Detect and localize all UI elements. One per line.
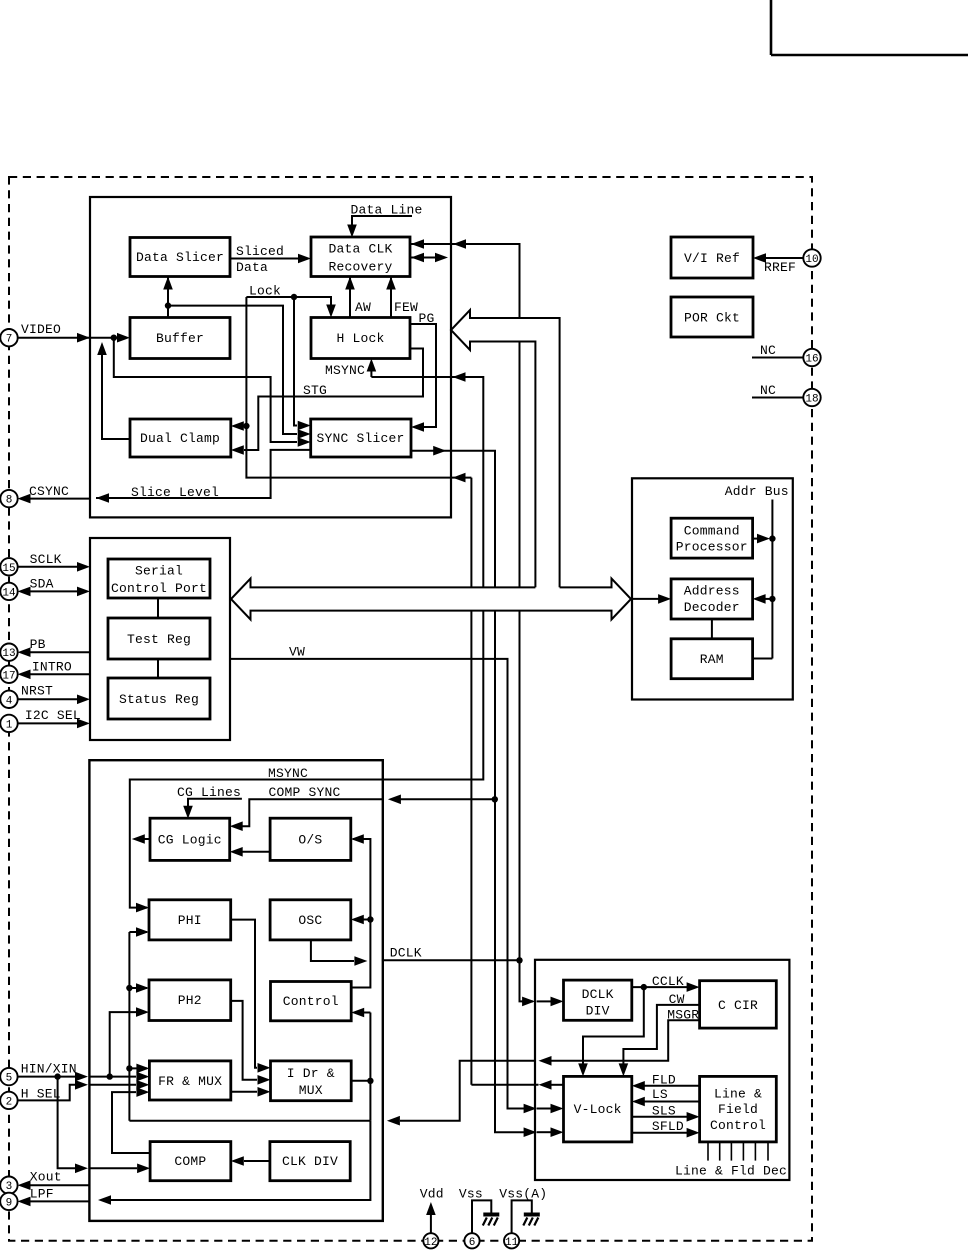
wire H SEL	[18, 1080, 150, 1100]
svg-text:SDA: SDA	[30, 577, 54, 592]
wire CW to V-Lock	[619, 1005, 700, 1077]
label CG Lines	[177, 785, 241, 800]
block I Dr & MUX	[271, 1061, 352, 1101]
block V/I Ref	[671, 237, 753, 278]
serial control group box	[90, 538, 230, 740]
pin 6 Vss	[459, 1187, 483, 1249]
label SLS	[652, 1104, 676, 1119]
svg-text:Sliced: Sliced	[236, 244, 284, 259]
pin 10 RREF	[764, 249, 821, 275]
svg-text:NRST: NRST	[21, 684, 53, 699]
svg-text:6: 6	[469, 1237, 476, 1249]
wire DCLK into Data CLK Recovery	[411, 239, 466, 249]
wire LS	[632, 1097, 700, 1107]
wire VW into V-Lock	[524, 1104, 564, 1114]
wire FEW	[386, 277, 418, 318]
svg-text:15: 15	[2, 563, 15, 575]
block OSC	[270, 900, 351, 940]
svg-text:LS: LS	[652, 1087, 668, 1102]
wire RREF	[753, 253, 804, 263]
wire SFLD	[632, 1128, 700, 1138]
label LS	[652, 1087, 668, 1102]
svg-text:13: 13	[2, 648, 15, 660]
svg-text:SYNC Slicer: SYNC Slicer	[316, 431, 404, 446]
wire Xout	[18, 1180, 90, 1190]
pin 5 HIN/XIN	[0, 1062, 77, 1086]
svg-text:HIN/XIN: HIN/XIN	[21, 1062, 77, 1077]
wire CG Logic output	[132, 834, 150, 844]
v-lock group box	[535, 960, 789, 1180]
wire SYNC-out bus vertical	[411, 451, 535, 1132]
svg-text:Command: Command	[684, 524, 740, 539]
wire SYNC into V-Lock	[524, 1127, 564, 1137]
pin 4 NRST	[0, 684, 53, 709]
svg-text:Vss(A): Vss(A)	[499, 1187, 547, 1202]
block Command Processor	[671, 518, 753, 558]
svg-text:OSC: OSC	[298, 913, 322, 928]
pin 8 CSYNC	[0, 484, 69, 507]
block Address Decoder	[671, 579, 753, 619]
wire sync slicer output arrow	[433, 446, 446, 456]
svg-text:INTRO: INTRO	[32, 660, 72, 675]
pin 13 PB	[0, 637, 45, 661]
block V-Lock	[564, 1076, 632, 1142]
pin 18 NC	[760, 383, 821, 406]
wire bus arrow into address decoder	[632, 594, 671, 604]
svg-text:H SEL: H SEL	[21, 1087, 61, 1102]
block H Lock	[311, 318, 410, 359]
wire MSYNC to H Lock	[325, 359, 466, 382]
clock-gen group box	[89, 760, 382, 1221]
svg-text:COMP SYNC: COMP SYNC	[269, 785, 341, 800]
ground symbol Vss	[483, 1215, 500, 1226]
svg-text:1: 1	[6, 719, 13, 731]
svg-text:11: 11	[505, 1237, 519, 1249]
svg-text:MSYNC: MSYNC	[268, 766, 308, 781]
svg-text:Decoder: Decoder	[684, 600, 740, 615]
label DCLK	[390, 946, 422, 961]
block PH2	[149, 980, 231, 1021]
svg-text:3: 3	[6, 1181, 13, 1193]
wire DCLK into DCLK DIV	[522, 997, 563, 1007]
svg-text:V-Lock: V-Lock	[574, 1102, 622, 1117]
block Data Slicer	[130, 238, 230, 277]
svg-text:NC: NC	[760, 383, 776, 398]
label VW	[289, 645, 305, 660]
svg-text:PH2: PH2	[178, 993, 202, 1008]
wire OSC output	[311, 940, 368, 966]
svg-text:Dual Clamp: Dual Clamp	[140, 431, 220, 446]
block Serial Control Port	[108, 559, 210, 598]
pin 12 Vdd	[420, 1187, 444, 1249]
wire COMP SYNC	[230, 795, 498, 832]
block O/S	[270, 818, 351, 860]
svg-text:DIV: DIV	[586, 1004, 610, 1019]
svg-text:RREF: RREF	[764, 260, 796, 275]
label Addr Bus	[725, 484, 789, 499]
svg-text:H Lock: H Lock	[336, 331, 384, 346]
wire SLS	[632, 1112, 700, 1122]
svg-text:RAM: RAM	[700, 652, 724, 667]
svg-text:Vss: Vss	[459, 1187, 483, 1202]
svg-text:CG Logic: CG Logic	[158, 833, 222, 848]
wire FLD	[632, 1081, 700, 1091]
svg-text:MUX: MUX	[299, 1083, 323, 1098]
svg-text:2: 2	[6, 1096, 13, 1108]
wire PG	[410, 311, 436, 432]
hollow double arrow serial to address decoder	[231, 579, 631, 620]
svg-text:VW: VW	[289, 645, 305, 660]
svg-text:I Dr &: I Dr &	[287, 1066, 335, 1081]
block Control	[271, 982, 352, 1021]
wire Lock from V-Lock area	[539, 1080, 564, 1090]
pin 11 Vss(A)	[499, 1187, 547, 1249]
wire AW	[345, 277, 371, 318]
pin 1 I2C SEL	[0, 708, 81, 732]
wire CCLK	[632, 982, 700, 992]
wire buffer branch to sync slicer	[168, 306, 311, 439]
wire HIN to PH2	[110, 1007, 149, 1076]
address bus group box	[632, 478, 793, 699]
svg-text:Data CLK: Data CLK	[328, 242, 392, 257]
block Buffer	[130, 318, 230, 359]
svg-text:Control: Control	[283, 994, 339, 1009]
svg-text:PHI: PHI	[178, 913, 202, 928]
svg-text:AW: AW	[355, 300, 371, 315]
svg-text:FEW: FEW	[394, 300, 418, 315]
svg-text:Control Port: Control Port	[111, 581, 207, 596]
wire Vdd arrow	[426, 1202, 436, 1233]
wire Vss(A) to ground	[512, 1200, 532, 1233]
page corner frame	[771, 0, 968, 55]
block Data CLK Recovery	[311, 237, 410, 277]
svg-text:Xout: Xout	[30, 1170, 62, 1185]
wire bus to address decoder	[753, 594, 776, 604]
wire I2C SEL	[18, 719, 91, 729]
block C CIR	[700, 981, 777, 1028]
svg-text:CSYNC: CSYNC	[29, 484, 69, 499]
wire SCLK	[18, 562, 91, 572]
wire DCLK bus vertical	[411, 244, 533, 1001]
pin 7 VIDEO	[0, 322, 61, 346]
wire decoder to RAM	[711, 619, 713, 639]
wire Slice Level	[96, 450, 311, 503]
wire I Dr output	[351, 1080, 370, 1082]
wire MSGR	[387, 1020, 700, 1125]
svg-text:NC: NC	[760, 343, 776, 358]
svg-text:DCLK: DCLK	[390, 946, 422, 961]
svg-text:5: 5	[6, 1073, 13, 1085]
svg-text:Vdd: Vdd	[420, 1187, 444, 1202]
svg-text:V/I Ref: V/I Ref	[684, 251, 740, 266]
wire COMP feedback to FR	[112, 1087, 150, 1153]
svg-text:I2C SEL: I2C SEL	[25, 708, 81, 723]
svg-text:Line &: Line &	[714, 1087, 762, 1102]
block CLK DIV	[270, 1142, 350, 1181]
wire video to sync slicer	[114, 338, 311, 447]
block Dual Clamp	[130, 419, 231, 457]
svg-text:Recovery: Recovery	[328, 260, 392, 275]
label MSGR	[667, 1007, 699, 1022]
block FR & MUX	[149, 1061, 230, 1100]
svg-text:14: 14	[2, 587, 16, 599]
svg-text:Data: Data	[236, 260, 268, 275]
wire CCLK branch to V-Lock	[578, 987, 644, 1076]
wire PB	[18, 647, 91, 657]
wire test reg to status reg	[157, 659, 159, 678]
svg-text:12: 12	[424, 1237, 437, 1249]
svg-text:PB: PB	[30, 637, 46, 652]
block CG Logic	[150, 818, 230, 860]
svg-text:8: 8	[6, 495, 13, 507]
wire HIN to COMP	[58, 1077, 151, 1174]
pin 9 LPF	[0, 1187, 54, 1211]
svg-text:Control: Control	[710, 1118, 766, 1133]
svg-text:SCLK: SCLK	[30, 552, 62, 567]
ground symbol Vss(A)	[523, 1215, 540, 1226]
wire MSYNC bus vertical	[130, 377, 484, 908]
svg-text:Field: Field	[718, 1102, 758, 1117]
svg-text:Addr Bus: Addr Bus	[725, 484, 789, 499]
wire Lock bus vertical	[246, 297, 538, 1085]
wire STG	[231, 349, 423, 455]
wire VIDEO input	[18, 333, 131, 343]
svg-text:O/S: O/S	[298, 833, 322, 848]
svg-text:Serial: Serial	[135, 564, 183, 579]
block Line & Field Control	[700, 1076, 777, 1142]
wire INTRO	[18, 670, 91, 680]
wire clamp feedback	[97, 342, 130, 439]
wire CG Lines	[183, 799, 242, 819]
svg-text:Test Reg: Test Reg	[127, 632, 191, 647]
wire FR to I Dr	[231, 1087, 271, 1097]
hollow arrow H-Lock to bus channel	[451, 310, 560, 587]
svg-text:Processor: Processor	[676, 540, 748, 555]
wire NRST	[18, 695, 91, 705]
svg-text:POR Ckt: POR Ckt	[684, 311, 740, 326]
wire control input arrow	[351, 1008, 373, 1121]
svg-text:CLK DIV: CLK DIV	[282, 1154, 338, 1169]
label MSYNC bottom	[268, 766, 308, 781]
wire Data Line	[347, 203, 422, 238]
sync/data-slicer group box	[90, 197, 451, 517]
svg-text:COMP: COMP	[174, 1154, 206, 1169]
wire PH2 output to I Dr	[231, 1001, 271, 1085]
pin 2 H SEL	[0, 1087, 61, 1110]
pin 16 NC	[760, 343, 821, 366]
wire command processor to bus	[753, 534, 776, 544]
svg-text:LPF: LPF	[30, 1187, 54, 1202]
svg-text:17: 17	[2, 670, 15, 682]
label CW	[669, 992, 685, 1007]
wire HIN/XIN	[18, 1072, 150, 1082]
svg-text:18: 18	[805, 394, 818, 406]
wire Lock	[231, 284, 466, 483]
pin 3 Xout	[0, 1170, 62, 1194]
wire DCLK horizontal	[382, 957, 523, 963]
wire Vss to ground	[472, 1200, 491, 1233]
wire Data CLK bidirectional	[410, 253, 448, 263]
wire NC 18	[752, 397, 804, 399]
label FLD	[652, 1072, 676, 1087]
svg-text:C CIR: C CIR	[718, 998, 758, 1013]
wire serial port to test reg	[157, 598, 159, 618]
svg-text:10: 10	[805, 254, 818, 266]
svg-text:Buffer: Buffer	[156, 331, 204, 346]
wire PHI output to I Dr	[231, 920, 271, 1073]
label Line & Fld Dec	[675, 1164, 787, 1179]
wire SDA	[18, 587, 91, 597]
block COMP	[150, 1142, 231, 1181]
svg-text:VIDEO: VIDEO	[21, 322, 61, 337]
block DCLK DIV	[564, 980, 632, 1020]
wire VW	[230, 659, 535, 1109]
pin 14 SDA	[0, 577, 53, 601]
label COMP SYNC	[269, 785, 341, 800]
wire buffer to data slicer	[163, 277, 173, 318]
IC boundary dashed border	[9, 177, 812, 1241]
wire CLK DIV to COMP	[231, 1156, 270, 1166]
block POR Ckt	[671, 297, 753, 337]
wire MSYNC to PHI arrow	[136, 903, 149, 913]
block Status Reg	[108, 678, 210, 719]
wire address bus vertical	[753, 500, 773, 659]
svg-text:Address: Address	[684, 584, 740, 599]
pin 15 SCLK	[0, 552, 61, 576]
svg-text:DCLK: DCLK	[582, 987, 614, 1002]
wire O/S to CG Logic	[230, 847, 270, 857]
wire LPF	[18, 1197, 90, 1207]
wire Sliced Data	[230, 244, 311, 275]
svg-text:7: 7	[6, 334, 13, 346]
wire DCLK net vertical	[351, 834, 374, 987]
block PHI	[149, 900, 231, 940]
wire line-field decoder stubs	[708, 1142, 768, 1161]
svg-text:9: 9	[6, 1197, 13, 1209]
svg-text:4: 4	[6, 695, 13, 707]
wire LPF output	[98, 1121, 370, 1205]
svg-text:FR & MUX: FR & MUX	[158, 1074, 222, 1089]
label CCLK	[652, 974, 684, 989]
block RAM	[671, 639, 753, 679]
wire MSGR net inside	[126, 927, 370, 1120]
pin 17 INTRO	[0, 660, 72, 684]
svg-text:Data Slicer: Data Slicer	[136, 250, 224, 265]
svg-text:SFLD: SFLD	[652, 1119, 684, 1134]
svg-text:16: 16	[805, 354, 818, 366]
svg-text:MSYNC: MSYNC	[325, 363, 365, 378]
block SYNC Slicer	[311, 419, 411, 457]
svg-text:Status Reg: Status Reg	[119, 692, 199, 707]
wire NC 16	[752, 357, 804, 359]
block Test Reg	[108, 618, 210, 659]
label SFLD	[652, 1119, 684, 1134]
wire CSYNC output	[18, 494, 90, 504]
svg-text:Line & Fld Dec: Line & Fld Dec	[675, 1164, 787, 1179]
